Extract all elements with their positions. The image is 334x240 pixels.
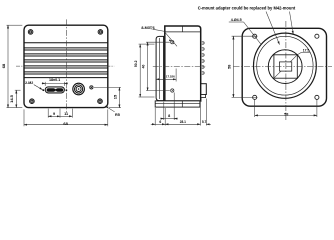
camera body side	[165, 26, 201, 101]
body top seam line	[165, 31, 201, 33]
base plate mid line	[155, 103, 199, 105]
dim 9 / 11	[48, 109, 72, 118]
svg-text:2-M2: 2-M2	[25, 81, 33, 85]
plate inner line	[158, 38, 160, 99]
dim 18±0.1 lines	[42, 82, 68, 86]
dim 8 bottom	[160, 93, 177, 121]
leader 2-M2	[34, 85, 43, 90]
svg-text:4-Ø4.5: 4-Ø4.5	[231, 18, 242, 22]
heatsink fins side teeth	[202, 42, 204, 74]
dim row 6 / 28.1 / 5.7	[151, 99, 211, 126]
mount chamfer circle	[257, 36, 313, 95]
bolt hole top-left	[253, 34, 257, 38]
svg-text:68: 68	[1, 63, 6, 68]
body outline	[24, 25, 108, 107]
mount outer circle	[254, 33, 317, 98]
dim 50.2 left outer	[139, 44, 155, 97]
leader note 2	[290, 12, 294, 35]
side hole top	[171, 41, 174, 44]
dim 14.5 left vertical	[15, 90, 21, 107]
dim 58 bottom of flange	[255, 100, 317, 118]
heatsink fin lines	[24, 43, 107, 78]
horizontal centerline	[234, 65, 333, 67]
svg-text:9: 9	[53, 112, 55, 116]
svg-text:50.2: 50.2	[134, 60, 138, 67]
sensor active rect	[279, 62, 291, 71]
bolt hole bottom-right	[315, 95, 319, 99]
C-mount bore circle	[268, 50, 302, 84]
dim 40 left inner	[146, 42, 170, 90]
svg-text:14.5: 14.5	[9, 94, 14, 103]
svg-text:8: 8	[168, 114, 170, 118]
dim 58 left of flange	[232, 36, 258, 97]
screw top-left	[28, 30, 33, 35]
small hole	[90, 86, 93, 89]
connector step block	[201, 95, 206, 98]
sensor diagonal	[274, 55, 297, 78]
svg-text:15: 15	[113, 94, 118, 99]
svg-text:6: 6	[159, 120, 161, 124]
dim 68 left vertical	[7, 25, 23, 107]
screw bottom-right	[98, 99, 103, 104]
side hole bottom	[171, 89, 174, 92]
leader 8-M3	[153, 29, 178, 46]
bolt hole top-right	[315, 34, 319, 38]
M2 hole left	[42, 89, 44, 91]
screw top-right	[98, 30, 103, 35]
label 17.5 diagonal	[297, 52, 310, 55]
base plate vertical line	[181, 101, 183, 107]
vertical centerline	[285, 21, 287, 120]
horizontal centerline right stub	[106, 65, 114, 67]
svg-text:5.7: 5.7	[202, 120, 207, 124]
bolt hole bottom-left	[253, 95, 257, 99]
svg-text:R5: R5	[115, 113, 120, 117]
svg-text:58: 58	[227, 65, 231, 69]
leader note 1	[266, 12, 280, 45]
dim 68 bottom	[24, 109, 108, 126]
vertical centerline	[65, 19, 67, 112]
svg-text:C-mount adapter could be repla: C-mount adapter could be replaced by M42…	[198, 6, 296, 11]
leader R5	[105, 106, 114, 112]
flange plate outline	[242, 28, 326, 106]
horizontal centerline left stub	[16, 65, 26, 67]
label 4-dia4.5 shelf and leader	[229, 22, 261, 44]
screw bottom-left	[30, 99, 35, 104]
base plate	[155, 101, 200, 107]
svg-text:68: 68	[63, 121, 68, 126]
svg-text:17.526: 17.526	[166, 75, 175, 79]
body top seam vertical	[182, 26, 184, 32]
USB micro-B connector	[45, 87, 64, 93]
sensor square	[274, 55, 297, 78]
horizontal centerline	[153, 65, 206, 67]
svg-text:18±0.1: 18±0.1	[49, 78, 60, 82]
svg-text:17.5: 17.5	[303, 48, 310, 52]
svg-text:11: 11	[64, 112, 68, 116]
svg-text:40: 40	[142, 65, 146, 69]
USB connector stub	[201, 84, 206, 95]
front flange plate	[156, 36, 164, 100]
tripod/LED rings	[73, 83, 85, 95]
svg-text:58: 58	[284, 112, 288, 116]
svg-text:28.1: 28.1	[180, 120, 186, 124]
dim 15 right vertical	[94, 87, 121, 107]
M2 hole right	[66, 89, 68, 91]
